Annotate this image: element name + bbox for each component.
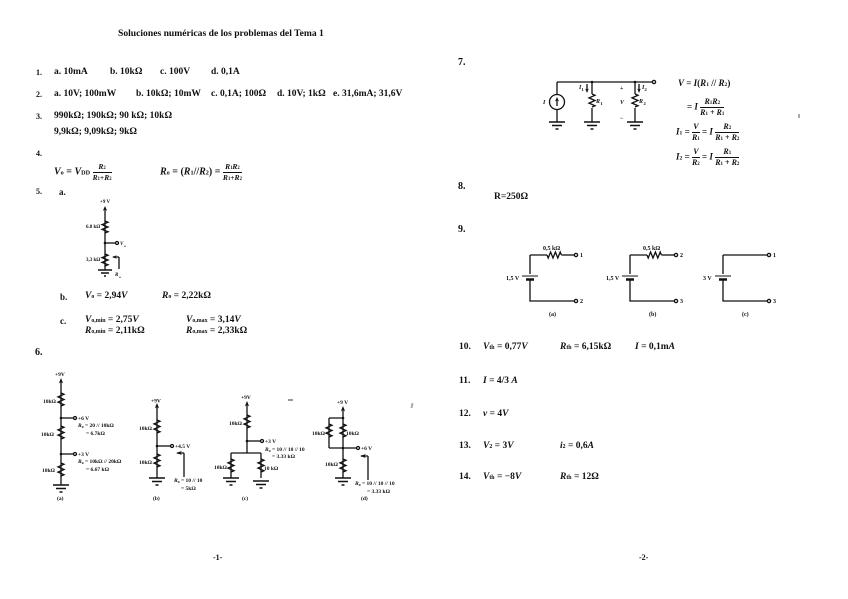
svg-text:10kΩ: 10kΩ [42, 468, 56, 474]
resistor 10k top zigzag [244, 415, 250, 428]
wire R2 top [634, 82, 636, 94]
current source arrow up [556, 100, 558, 106]
svg-text:2: 2 [644, 101, 647, 106]
svg-text:10kΩ: 10kΩ [139, 460, 153, 466]
circuit 6b : two-resistor divider [130, 392, 220, 504]
item 5 c [60, 317, 66, 326]
wire left leg and bottom [630, 255, 674, 301]
wire R1 top [591, 82, 593, 94]
svg-text:o: o [119, 275, 121, 279]
resistor 0,5k zigzag [647, 252, 661, 258]
svg-text:3: 3 [680, 299, 683, 305]
terminal 2 open circle [674, 253, 677, 256]
wire +9V supply rail [104, 208, 106, 270]
ground [98, 270, 112, 276]
svg-text:+3 V: +3 V [265, 439, 276, 445]
scan speck 1 [288, 399, 293, 401]
svg-text:0,5 kΩ: 0,5 kΩ [643, 246, 660, 252]
wire left leg and bottom [723, 255, 767, 301]
svg-text:+3 V: +3 V [78, 452, 89, 458]
terminal Vo open circle [116, 242, 119, 245]
current I2 arrow down [638, 84, 640, 91]
ground [53, 485, 69, 492]
current source I circle [550, 95, 565, 110]
svg-text:+9V: +9V [55, 372, 65, 378]
circuit 7 : current source with parallel resistors [535, 72, 665, 142]
svg-text:Ro = 20 // 10kΩ: Ro = 20 // 10kΩ [77, 423, 114, 429]
wire tap +6V [343, 447, 356, 449]
svg-text:1,5 V: 1,5 V [606, 276, 620, 282]
battery 1,5V plate long [622, 275, 638, 277]
ground [335, 478, 351, 485]
wire parallel loop [329, 418, 343, 448]
svg-text:+9V: +9V [151, 399, 161, 405]
circuit 9c : battery only [693, 240, 788, 320]
svg-text:−: − [620, 116, 624, 122]
svg-text:10kΩ: 10kΩ [214, 465, 228, 471]
svg-text:1,5 V: 1,5 V [506, 276, 520, 282]
wire tap +6V [61, 417, 73, 419]
eq 7 line2 [687, 98, 724, 117]
resistor 10k lower zigzag [58, 463, 64, 476]
item 7 [458, 58, 466, 68]
svg-text:I: I [542, 100, 546, 106]
scan speck 2 [410, 403, 413, 408]
terminal +6V open circle [74, 417, 77, 420]
resistor 10k lower zigzag [340, 459, 346, 472]
svg-text:2: 2 [645, 87, 648, 92]
Ro arrowhead left [176, 451, 182, 455]
svg-text:10kΩ: 10kΩ [325, 462, 339, 468]
svg-text:R: R [595, 99, 600, 105]
resistor R 3.3k zigzag [102, 254, 108, 266]
svg-text:10 kΩ: 10 kΩ [264, 466, 279, 472]
svg-text:+4.5 V: +4.5 V [175, 444, 190, 450]
resistor 10k right zigzag [258, 459, 264, 472]
current I1 arrow down [586, 84, 588, 91]
wire top left [530, 254, 547, 256]
resistor 10k upper zigzag [58, 393, 64, 406]
Ro looking-in bracket wire [113, 257, 119, 269]
wire source to rail [556, 82, 558, 95]
ground under source [549, 122, 565, 129]
item 11 [459, 377, 470, 387]
item 5 [36, 188, 42, 196]
item 10 [459, 343, 471, 353]
svg-text:1: 1 [773, 253, 776, 259]
resistor 10k middle zigzag [58, 426, 64, 439]
svg-text:1: 1 [582, 87, 585, 92]
svg-text:= 5kΩ: = 5kΩ [181, 486, 196, 492]
ground left [223, 478, 239, 485]
svg-text:(a): (a) [549, 311, 556, 318]
circuit 9b : battery with series resistor [600, 240, 695, 320]
node R1 top dot [591, 81, 594, 84]
item 8 [458, 182, 466, 192]
battery 1,5V plate long [522, 275, 538, 277]
eq 7 line1 [678, 79, 730, 88]
svg-text:(c): (c) [742, 311, 749, 318]
node top dot [342, 417, 345, 420]
item 5 b [60, 293, 67, 302]
Ro looking-in bracket wire [361, 456, 368, 480]
terminal 1 open circle [767, 253, 770, 256]
footer page2 [639, 554, 648, 562]
eq 7 line4 [676, 148, 739, 167]
node +3V dot [246, 440, 249, 443]
wire top rail [557, 81, 652, 83]
terminal 2 open circle [574, 299, 577, 302]
svg-text:= 3.33 kΩ: = 3.33 kΩ [272, 454, 296, 460]
resistor 10k left zigzag [326, 424, 332, 437]
terminal +3V open circle [261, 440, 264, 443]
svg-text:3,3 kΩ: 3,3 kΩ [86, 258, 100, 263]
terminal 3 open circle [674, 299, 677, 302]
svg-text:Ro = 10 // 10: Ro = 10 // 10 [173, 478, 203, 484]
circuit 9a : battery with series resistor [500, 240, 595, 320]
supply arrow up [103, 206, 107, 211]
svg-text:1: 1 [601, 101, 604, 106]
eq 7 line3 [676, 123, 739, 142]
terminal open circle right [652, 80, 655, 83]
svg-text:2: 2 [680, 253, 683, 259]
svg-text:3 V: 3 V [703, 276, 712, 282]
wire to lower resistor [342, 448, 344, 478]
wire +9V rail [60, 381, 62, 485]
svg-text:= 3.33 kΩ: = 3.33 kΩ [367, 489, 391, 495]
wire to terminal 1 [562, 254, 575, 256]
title [118, 29, 324, 39]
resistor 10k right zigzag [340, 424, 346, 437]
svg-text:10kΩ: 10kΩ [312, 431, 326, 437]
item 12 [459, 410, 471, 420]
wire tap +4.5V [157, 445, 170, 447]
svg-text:Ro = 10 // 10 // 10: Ro = 10 // 10 // 10 [264, 447, 305, 453]
svg-text:+6 V: +6 V [78, 416, 89, 422]
svg-text:+9V: +9V [241, 395, 251, 401]
svg-text:1: 1 [580, 253, 583, 259]
svg-text:R: R [638, 99, 643, 105]
wire left leg and bottom [530, 255, 574, 301]
svg-text:(b): (b) [649, 311, 656, 318]
svg-text:10kΩ: 10kΩ [43, 399, 57, 405]
battery 1,5V plate short thick [526, 278, 534, 281]
node Vo dot [104, 242, 107, 245]
footer page1 [213, 554, 222, 562]
svg-text:(c): (c) [242, 495, 248, 502]
supply arrow up [59, 378, 63, 384]
wire +9V rail [246, 404, 248, 453]
resistor R1 zigzag [589, 94, 595, 107]
wire top to terminal 1 [723, 254, 767, 256]
wire tap +3V [247, 440, 260, 442]
resistor R 6.8k zigzag [102, 221, 108, 233]
node +4.5V dot [156, 445, 159, 448]
svg-text:6.8 kΩ: 6.8 kΩ [86, 225, 100, 230]
battery 1,5V plate short thick [626, 278, 634, 281]
svg-text:Ro = 10kΩ // 20kΩ: Ro = 10kΩ // 20kΩ [77, 459, 122, 465]
node R2 top dot [634, 81, 637, 84]
ground under R2 [627, 122, 643, 129]
svg-text:10kΩ: 10kΩ [229, 421, 243, 427]
item 3 [36, 113, 42, 121]
ground [149, 478, 165, 485]
ground under R1 [584, 122, 600, 129]
node +6V dot [342, 447, 345, 450]
svg-text:+: + [620, 86, 624, 92]
circuit 5a : voltage divider [80, 195, 140, 290]
resistor 0,5k zigzag [547, 252, 561, 258]
svg-text:+9 V: +9 V [100, 200, 111, 205]
circuit 6d : parallel pair over resistor [305, 392, 415, 504]
Ro looking-in bracket wire [177, 453, 184, 477]
supply arrow up [155, 403, 159, 409]
wire R2 bottom [634, 108, 636, 122]
svg-text:(b): (b) [153, 495, 160, 502]
scan speck 3 [798, 114, 800, 118]
svg-text:(a): (a) [57, 495, 64, 502]
item 9 [458, 225, 466, 235]
svg-text:2: 2 [580, 299, 583, 305]
svg-text:= 6.7kΩ: = 6.7kΩ [86, 431, 105, 437]
ground right [253, 481, 269, 488]
supply arrow up [245, 401, 249, 407]
svg-text:+6 V: +6 V [361, 446, 372, 452]
item 4 [36, 150, 42, 158]
item 13 [459, 442, 471, 452]
circuit 6c : divider with two parallel lower resistors [210, 388, 320, 506]
svg-text:0,5 kΩ: 0,5 kΩ [543, 246, 560, 252]
wire +9V rail [156, 406, 158, 478]
wire to terminal 2 [662, 254, 675, 256]
battery 3V plate long [715, 275, 731, 277]
terminal +4.5V open circle [171, 445, 174, 448]
circuit 6a : three-resistor divider [30, 365, 170, 505]
svg-text:o: o [124, 244, 126, 248]
wire to Vo terminal [105, 242, 115, 244]
resistor 10k lower zigzag [154, 454, 160, 467]
item 14 [459, 473, 471, 483]
svg-text:= 6.67 kΩ: = 6.67 kΩ [86, 467, 110, 473]
svg-text:10kΩ: 10kΩ [41, 432, 55, 438]
Ro arrowhead left [112, 255, 117, 259]
supply arrow up [341, 406, 345, 412]
wire split bar [231, 453, 261, 478]
terminal +6V open circle [357, 447, 360, 450]
item 1 [36, 69, 42, 77]
battery 3V plate short thick [719, 278, 727, 281]
terminal 1 open circle [574, 253, 577, 256]
wire +9V stub [342, 409, 344, 418]
resistor 10k upper zigzag [154, 420, 160, 433]
resistor 10k left zigzag [228, 459, 234, 472]
svg-text:+9 V: +9 V [337, 400, 348, 406]
wire R1 bottom [591, 108, 593, 122]
Ro arrowhead left [360, 454, 366, 458]
svg-text:3: 3 [773, 299, 776, 305]
svg-text:10kΩ: 10kΩ [346, 431, 360, 437]
item 6 [35, 348, 43, 358]
terminal 3 open circle [767, 299, 770, 302]
svg-text:(d): (d) [361, 495, 368, 502]
wire top left [630, 254, 647, 256]
wire source to ground [556, 110, 558, 123]
terminal +3V open circle [74, 453, 77, 456]
node +6V dot [60, 417, 63, 420]
svg-text:Ro = 10 // 10 // 10: Ro = 10 // 10 // 10 [354, 481, 395, 487]
wire tap +3V [61, 453, 73, 455]
svg-text:10kΩ: 10kΩ [139, 426, 153, 432]
item 2 [36, 91, 42, 99]
node +3V dot [60, 453, 63, 456]
resistor R2 zigzag [632, 94, 638, 107]
svg-text:V: V [620, 100, 625, 106]
